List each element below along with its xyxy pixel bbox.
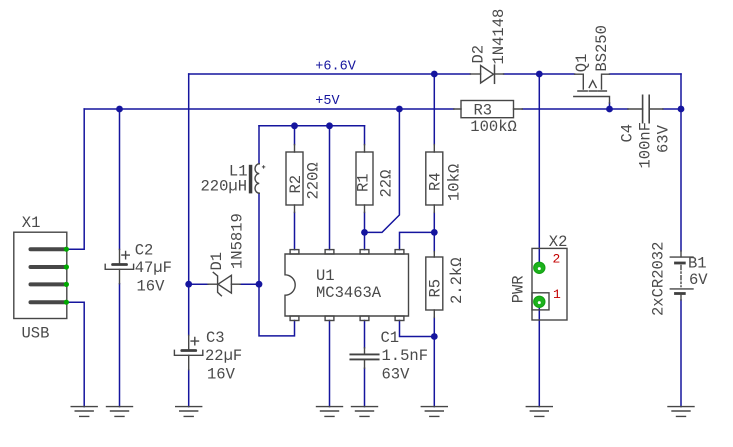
node R5 bottom (431, 333, 438, 340)
battery B1 lead top (680, 251, 682, 257)
svg-text:1N4148: 1N4148 (490, 9, 508, 65)
svg-text:2: 2 (553, 251, 561, 266)
wire R1 top from rail (364, 126, 366, 145)
resistor R1 stubs (364, 145, 366, 213)
wire C1 bottom to ground (364, 368, 366, 406)
svg-text:C2: C2 (135, 242, 154, 260)
op-amp U1 bottom pins (290, 316, 299, 321)
diode D1 lead right (231, 283, 240, 285)
diode D1 lead left (208, 283, 218, 285)
svg-text:+5V: +5V (315, 94, 340, 109)
op-amp U1 body DIP-8 with notch (285, 254, 409, 316)
capacitor C1 plates (350, 354, 378, 359)
wire +6.6V down to X2 pin 2 (538, 74, 540, 268)
wire R4 bottom to node (433, 212, 435, 232)
capacitor C4 leads (628, 108, 663, 110)
svg-text:U1: U1 (316, 267, 335, 285)
node D1 cathode (256, 281, 263, 288)
op-amp U1 top pins (290, 250, 299, 254)
capacitor C3 positive plate (180, 349, 197, 352)
svg-text:D2: D2 (470, 45, 488, 64)
wire D1 cathode segment (240, 283, 259, 285)
wire USB GND pin to ground (67, 302, 84, 406)
capacitor C3 plus sign (191, 337, 198, 344)
wire L1 bottom through D1 node down and to U1 pin 5 (259, 193, 295, 336)
wire X2 pin 1 to ground (538, 302, 540, 407)
inductor L1 polarity mark (262, 166, 264, 168)
diode D2 lead right (495, 73, 504, 75)
svg-text:10kΩ: 10kΩ (446, 164, 464, 201)
ground under USB (71, 407, 97, 417)
wire C2 minus to ground (119, 284, 121, 407)
svg-text:16V: 16V (207, 365, 236, 383)
connector X2 pad 1 (534, 296, 545, 307)
wire feedback node diagonal riser to +5V (365, 109, 400, 232)
svg-text:220µH: 220µH (200, 178, 247, 196)
node X2 branch on +6.6V (536, 71, 543, 78)
node C4 right on B1 rail (678, 106, 685, 113)
node R1 bottom feedback (361, 229, 368, 236)
ground under C3 (176, 407, 202, 417)
svg-text:R3: R3 (474, 102, 493, 120)
capacitor C3 lead bottom (188, 355, 190, 369)
ground under C2 (107, 407, 133, 417)
svg-text:1: 1 (553, 287, 561, 302)
capacitor C1 leads (364, 348, 366, 368)
svg-text:16V: 16V (137, 277, 166, 295)
svg-text:100nF: 100nF (637, 122, 655, 169)
wire R3 output line to C4 and battery rail (522, 108, 681, 110)
wire U1 pin 6 to ground (329, 321, 331, 407)
connector X1 pin bars (29, 247, 67, 304)
capacitor C2 negative plate bracket (105, 264, 133, 269)
wire +6.6V horizontal rail (189, 73, 681, 75)
svg-text:C3: C3 (206, 329, 225, 347)
svg-text:22Ω: 22Ω (378, 170, 396, 198)
wire Q1 gate drop to R3 net (609, 103, 611, 109)
diode D2 triangle (481, 66, 494, 84)
capacitor C3 negative plate bracket (174, 350, 202, 355)
svg-text:2xCR2032: 2xCR2032 (650, 242, 668, 316)
battery B1 dash-dot divider (680, 266, 682, 287)
svg-text:1N5819: 1N5819 (229, 213, 247, 269)
connector X1 USB body (14, 232, 67, 318)
node D1 anode (185, 281, 192, 288)
svg-text:R5: R5 (427, 279, 445, 298)
connector X2 pin 1 box (532, 293, 549, 310)
wire B1 minus to ground (680, 300, 682, 407)
svg-text:+6.6V: +6.6V (315, 60, 356, 75)
ground under X2 (526, 407, 552, 417)
wire R2 top from rail (294, 126, 296, 145)
node R4 bottom R5 top (431, 229, 438, 236)
transistor Q1 source lead (575, 74, 584, 89)
svg-text:6V: 6V (689, 271, 708, 289)
capacitor C2 plus sign (122, 251, 129, 258)
transistor Q1 gate (574, 97, 610, 104)
resistor R4 body (426, 152, 443, 205)
battery B1 plate short thick top (674, 262, 686, 265)
resistor R5 body (426, 257, 443, 310)
wire rail down to U1 pin 2 (329, 126, 331, 250)
svg-text:C1: C1 (381, 329, 400, 347)
battery B1 plate long bottom (670, 288, 693, 290)
wire U1 pin 4 to R4 bottom node (400, 232, 435, 249)
svg-text:63V: 63V (382, 365, 411, 383)
diode D1 triangle (218, 275, 231, 293)
node C2 branch on +5V (116, 106, 123, 113)
transistor Q1 channel dashes (578, 90, 607, 92)
node R2 top on rail (291, 122, 298, 129)
svg-text:1.5nF: 1.5nF (382, 347, 429, 365)
diode D2 cathode bar (494, 65, 496, 83)
wire C2 branch from +5V (119, 109, 121, 249)
ground under U1 pin 6 (317, 407, 343, 417)
wire top rail of L1 R2 R1 (259, 125, 365, 127)
resistor R5 stubs (433, 252, 435, 318)
transistor Q1 substrate arrow (589, 81, 596, 88)
resistor R2 body (286, 152, 303, 205)
svg-text:22µF: 22µF (205, 347, 242, 365)
connector X1 pin pads green (64, 247, 69, 305)
svg-text:47µF: 47µF (135, 259, 172, 277)
wire R5 bottom to ground (433, 317, 435, 406)
resistor R3 body (461, 101, 514, 118)
svg-text:R2: R2 (287, 175, 305, 194)
wire D1 anode segment (189, 283, 208, 285)
inductor L1 coil arcs (255, 164, 259, 193)
capacitor C4 plates (643, 95, 650, 122)
ground under R5 (421, 407, 447, 417)
node R4 top on +6.6V (431, 71, 438, 78)
capacitor C2 lead top (119, 249, 121, 263)
svg-text:R1: R1 (355, 173, 373, 192)
wire C1 top from U1 pin 7 (364, 321, 366, 348)
inductor L1 core bars (249, 165, 253, 194)
svg-text:C4: C4 (619, 124, 637, 143)
connector X2 pad 2 (534, 262, 545, 273)
capacitor C2 lead bottom (119, 269, 121, 283)
svg-text:USB: USB (22, 324, 50, 342)
capacitor C3 lead top (188, 335, 190, 349)
battery B1 lead bottom (680, 295, 682, 300)
wire +6.6V down to R4 (433, 74, 435, 145)
diode D1 schottky cathode bar (213, 272, 221, 295)
battery B1 plate short thick bottom (674, 292, 686, 295)
wire R2 bottom to U1 pin 1 (294, 212, 296, 249)
ground under B1 (668, 407, 694, 417)
wire +5V horizontal rail (84, 108, 454, 110)
wire rail down to L1 top (258, 126, 260, 163)
wire node to R5 top (433, 232, 435, 251)
capacitor C2 positive plate (111, 263, 128, 266)
wire U1 pin 8 to R5 bottom node (400, 321, 435, 337)
wire left vertical from +6.6V down through D1 node to C3 (188, 74, 190, 335)
svg-text:D1: D1 (208, 252, 226, 271)
svg-text:R4: R4 (427, 172, 445, 191)
resistor R4 stubs (433, 145, 435, 213)
wire R1 bottom to U1 pin 3 (364, 212, 366, 249)
resistor R1 body (356, 152, 373, 205)
resistor R2 stubs (294, 145, 296, 213)
wire right vertical +6.6V to C4 node to B1 (680, 74, 682, 251)
node Q1 gate on R3 net (606, 106, 613, 113)
wire USB VBUS pin to +5V rail (67, 109, 84, 249)
svg-text:X1: X1 (22, 214, 41, 232)
svg-text:Q1: Q1 (573, 54, 591, 73)
svg-text:2.2kΩ: 2.2kΩ (448, 257, 466, 304)
svg-text:100kΩ: 100kΩ (470, 118, 517, 136)
battery B1 plate long top (670, 256, 693, 258)
svg-text:B1: B1 (688, 255, 707, 273)
connector X2 body (532, 248, 567, 320)
resistor R3 stubs (454, 108, 523, 110)
svg-text:220Ω: 220Ω (305, 162, 323, 199)
svg-text:MC3463A: MC3463A (316, 284, 382, 302)
node riser on +5V (396, 106, 403, 113)
svg-text:BS250: BS250 (593, 25, 611, 72)
ground under C1 (352, 407, 378, 417)
svg-text:PWR: PWR (509, 275, 527, 303)
transistor Q1 drain lead (602, 74, 610, 89)
svg-text:63V: 63V (655, 124, 673, 153)
node U1 pin2 on rail (326, 122, 333, 129)
diode D2 lead left (470, 73, 480, 75)
svg-text:X2: X2 (549, 233, 568, 251)
wire C3 minus to ground (188, 370, 190, 407)
